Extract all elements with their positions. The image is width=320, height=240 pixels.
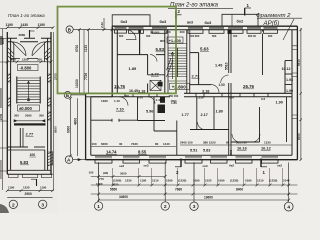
bottom window sill 7 bbox=[262, 160, 279, 163]
texts lower-right top row bbox=[196, 96, 266, 102]
top window sill 1 bbox=[115, 30, 127, 33]
room label 1.89 bbox=[129, 66, 138, 71]
detail entry wall lower bbox=[7, 41, 51, 43]
dim line lower-right band bbox=[180, 144, 292, 146]
paper shading left strip bbox=[0, 0, 58, 213]
underline 14.74 bbox=[106, 153, 117, 155]
door jambs lower-left gap bbox=[112, 119, 119, 122]
detail bottom dim texts bbox=[8, 186, 47, 190]
elevation box +2.800 bbox=[170, 83, 190, 89]
room label 3.18 right bbox=[202, 90, 209, 94]
svg-text:26.76: 26.76 bbox=[243, 84, 255, 89]
detail hatch pocket right lower bbox=[48, 98, 51, 106]
section marker 1 bottom bbox=[261, 159, 267, 176]
partition vert lower mid bbox=[176, 121, 178, 156]
svg-text:1090: 1090 bbox=[245, 179, 252, 183]
svg-text:1133: 1133 bbox=[84, 45, 88, 52]
bath partition horiz 3 bbox=[285, 84, 292, 86]
svg-text:14.74: 14.74 bbox=[106, 150, 117, 155]
top window sill 8 bbox=[264, 30, 278, 34]
svg-text:30: 30 bbox=[119, 142, 123, 146]
detail right outer wall bbox=[44, 32, 51, 174]
room label 2.17 bbox=[201, 113, 208, 117]
label 5.51 lower bbox=[190, 149, 197, 153]
svg-text:1.49: 1.49 bbox=[215, 64, 222, 68]
partition vert left apt inner bbox=[147, 55, 149, 75]
svg-text:100: 100 bbox=[30, 153, 36, 157]
top window sill 3 bbox=[152, 30, 167, 34]
detail left margin dim line bbox=[2, 29, 4, 191]
bottom window sill 1 bbox=[95, 160, 112, 163]
left vert dim line lower b bbox=[77, 98, 79, 156]
stair treads bbox=[168, 48, 187, 77]
svg-text:800: 800 bbox=[212, 34, 217, 38]
vent shaft block C bbox=[160, 97, 165, 103]
svg-text:80: 80 bbox=[226, 141, 230, 145]
dim text row 1 bbox=[99, 177, 290, 183]
extra dim line left bay bbox=[91, 175, 167, 178]
detail left margin ticks bbox=[0, 29, 7, 172]
svg-text:4.46: 4.46 bbox=[156, 98, 162, 102]
rotated dim right 5510 bbox=[297, 59, 301, 66]
svg-text:3025 80: 3025 80 bbox=[236, 141, 247, 145]
top window sill 7 bbox=[247, 30, 261, 34]
label 14.74 bbox=[106, 150, 117, 155]
detail section mark top bbox=[30, 30, 35, 38]
G-MAIN: main plan group bbox=[64, 3, 302, 212]
svg-text:300 800: 300 800 bbox=[190, 34, 200, 38]
svg-text:1330: 1330 bbox=[264, 141, 271, 145]
room label 1.49 bbox=[215, 64, 222, 68]
rotated dim detail right a bbox=[54, 73, 58, 80]
detail vestibule wall bbox=[11, 58, 48, 60]
room label 2.77 left bbox=[151, 72, 160, 77]
svg-text:400: 400 bbox=[166, 30, 171, 34]
detail 2900 text bbox=[25, 192, 33, 196]
door arc lower-right b bbox=[232, 134, 240, 142]
room label 1.90a bbox=[286, 89, 293, 93]
svg-text:2460 100: 2460 100 bbox=[180, 141, 193, 145]
dim text row 1 extras bbox=[96, 182, 119, 187]
svg-text:бк2: бк2 bbox=[229, 164, 234, 168]
svg-text:-0.800: -0.800 bbox=[20, 66, 33, 71]
svg-text:8.55: 8.55 bbox=[138, 150, 147, 155]
vent shaft solid small bbox=[158, 82, 163, 87]
label 5.96 bbox=[146, 110, 153, 114]
underline 8.55 bbox=[138, 153, 147, 155]
axis line 3 vertical bbox=[193, 163, 195, 202]
section marker 2 bottom bbox=[175, 159, 181, 176]
detail hatch pocket right upper bbox=[48, 74, 51, 82]
svg-text:15.76: 15.76 bbox=[114, 84, 126, 89]
dim ticks line 3 bbox=[97, 199, 290, 202]
door arc lower-right bbox=[198, 122, 206, 130]
left upper outer wall bbox=[112, 26, 117, 97]
svg-text:1190: 1190 bbox=[8, 186, 15, 190]
rotated dim right 6000 bbox=[297, 133, 301, 140]
svg-text:ок3: ок3 bbox=[119, 164, 124, 168]
partition vert lower-left b bbox=[153, 97, 155, 131]
door arc bearing wall bbox=[221, 75, 229, 83]
detail mid dim texts bbox=[11, 58, 42, 62]
underline 7.10 bbox=[116, 110, 125, 112]
detail wall vert b bbox=[44, 150, 46, 170]
svg-text:2.32: 2.32 bbox=[100, 22, 104, 28]
fragment code AR(b) bbox=[263, 20, 280, 27]
stair landing line upper bbox=[168, 43, 187, 45]
svg-text:(1230): (1230) bbox=[178, 179, 186, 183]
rotated dim detail left low bbox=[0, 113, 3, 120]
extension lines below bottom wall bbox=[99, 162, 289, 185]
bottom window glazing lines bbox=[95, 156, 278, 158]
corridor wall north bbox=[117, 92, 292, 94]
underline 5.83 bbox=[156, 51, 165, 53]
detail bottom sill 1 bbox=[9, 174, 19, 177]
axis leader line B bbox=[71, 94, 86, 96]
door arc right apt bbox=[211, 85, 219, 93]
partition vert lower-right a bbox=[196, 97, 198, 130]
svg-text:2: 2 bbox=[164, 204, 167, 210]
svg-text:300: 300 bbox=[39, 114, 44, 118]
bath partition horiz 2 bbox=[285, 73, 292, 75]
bottom window sill 2 bbox=[123, 160, 140, 163]
svg-text:300: 300 bbox=[14, 114, 19, 118]
svg-text:ок3: ок3 bbox=[144, 164, 149, 168]
section marker 1 top bbox=[245, 3, 252, 16]
svg-text:1.03: 1.03 bbox=[219, 83, 225, 87]
svg-text:6700: 6700 bbox=[75, 45, 79, 52]
room label 15.76 bbox=[114, 84, 126, 89]
detail bottom dim line bbox=[7, 190, 52, 192]
rotated dim 7726 bbox=[84, 73, 88, 80]
svg-text:(1230): (1230) bbox=[269, 179, 277, 183]
svg-text:1200: 1200 bbox=[22, 58, 29, 62]
window tick right wall 3 bbox=[292, 115, 297, 119]
right outer wall bbox=[292, 26, 297, 160]
dim line 1 bottom bbox=[91, 184, 298, 186]
underline 5.83 detail bbox=[20, 164, 29, 166]
svg-text:6000: 6000 bbox=[297, 133, 301, 140]
svg-text:1190: 1190 bbox=[40, 186, 47, 190]
partition horiz right apt low bbox=[190, 84, 211, 86]
svg-text:7680: 7680 bbox=[175, 188, 182, 192]
axis circle 3 bbox=[190, 202, 198, 210]
svg-text:7726: 7726 bbox=[84, 73, 88, 80]
detail bottom sill 3 bbox=[42, 174, 52, 177]
section marker 2 top bbox=[176, 9, 182, 19]
svg-text:300: 300 bbox=[37, 58, 42, 62]
rotated dim 11000 bbox=[75, 79, 79, 88]
svg-text:100: 100 bbox=[124, 94, 129, 98]
detail wall vert a bbox=[20, 128, 23, 147]
svg-text:1190: 1190 bbox=[140, 179, 147, 183]
svg-text:5.51: 5.51 bbox=[190, 149, 197, 153]
detail door gap wall horiz bbox=[7, 147, 45, 150]
detail 2880 text bbox=[19, 33, 26, 37]
svg-text:1190: 1190 bbox=[6, 23, 13, 27]
elevation box 0.000 bbox=[18, 105, 40, 111]
svg-text:80: 80 bbox=[155, 142, 159, 146]
rotated dim 1133 bbox=[84, 45, 88, 52]
detail arrows dim line bbox=[14, 120, 45, 122]
svg-text:2.77: 2.77 bbox=[26, 132, 35, 137]
axis leader line A with arrow bbox=[73, 159, 86, 161]
svg-text:(1230): (1230) bbox=[230, 179, 238, 183]
room label 2.77 right bbox=[192, 74, 201, 79]
balcony top-mid-right bbox=[222, 14, 258, 26]
window tick right wall 2 bbox=[292, 73, 297, 77]
svg-text:1.90: 1.90 bbox=[286, 89, 293, 93]
bath partition vert right bbox=[284, 61, 286, 94]
top window sill 6 bbox=[228, 30, 243, 34]
room label 5.83 upper-left bbox=[156, 47, 165, 52]
svg-text:±0.000: ±0.000 bbox=[19, 106, 32, 111]
bottom window sill 3 bbox=[149, 160, 166, 163]
extra small texts left bay bbox=[89, 171, 127, 176]
svg-text:7330: 7330 bbox=[131, 142, 138, 146]
detail axis circle 3 bbox=[39, 200, 47, 208]
svg-text:бк3: бк3 bbox=[160, 19, 167, 24]
svg-text:5510: 5510 bbox=[224, 62, 228, 70]
svg-text:3020: 3020 bbox=[112, 183, 119, 187]
underline 2.77 left bbox=[151, 75, 159, 77]
partition horiz left apt bbox=[117, 54, 165, 56]
svg-text:1090: 1090 bbox=[166, 179, 173, 183]
axis leader line V bbox=[73, 29, 112, 31]
svg-text:3.18: 3.18 bbox=[202, 90, 209, 94]
axis circle 1 bbox=[94, 202, 102, 210]
door arc vent room bbox=[148, 97, 155, 104]
svg-text:16.16: 16.16 bbox=[237, 146, 248, 151]
bottom window sill 4 bbox=[185, 160, 202, 163]
axis line 4 vertical bbox=[288, 163, 290, 202]
fragment label text bbox=[256, 13, 291, 19]
label 16.16 lower bbox=[237, 146, 248, 151]
partition vert left apt bbox=[139, 30, 141, 55]
partition horiz right apt top bbox=[190, 52, 199, 54]
door arc left apt room bbox=[150, 55, 157, 62]
balcony label mid bbox=[160, 19, 167, 24]
detail bottom wall bbox=[7, 170, 52, 174]
partition horiz lower-right small rooms bbox=[190, 129, 229, 131]
rotated dim detail right b bbox=[54, 126, 58, 133]
svg-text:300: 300 bbox=[146, 34, 151, 38]
dim ticks line 2 bbox=[97, 193, 290, 196]
detail lower dim line 2 bbox=[7, 196, 52, 198]
rotated dim 5510 bbox=[224, 62, 228, 70]
svg-text:1090: 1090 bbox=[193, 179, 200, 183]
svg-text:1.10: 1.10 bbox=[114, 99, 120, 103]
axis line 2 vertical bbox=[164, 163, 166, 201]
svg-text:100: 100 bbox=[229, 96, 234, 100]
underline 16.16 bbox=[237, 149, 247, 151]
svg-text:1230: 1230 bbox=[125, 179, 132, 183]
rotated dim 6000 bbox=[67, 126, 71, 133]
label 1.03 bbox=[219, 83, 225, 87]
left vert dim line b bbox=[87, 30, 89, 94]
svg-text:2700: 2700 bbox=[0, 113, 3, 120]
svg-text:+2.800: +2.800 bbox=[172, 84, 187, 89]
underline 16.12 bbox=[261, 149, 271, 151]
axis circle B mid-left bbox=[64, 92, 71, 99]
stair left wall bbox=[165, 30, 168, 94]
svg-text:2.77: 2.77 bbox=[151, 72, 160, 77]
underline 2.77 detail bbox=[26, 135, 34, 137]
door arc lower-left bbox=[119, 97, 128, 106]
rotated dim 4800 bbox=[73, 118, 77, 125]
edge smudge left top bbox=[0, 36, 3, 45]
partition horiz lower-right big rooms bbox=[231, 141, 260, 143]
underline 2.77 right bbox=[192, 77, 200, 79]
svg-text:19600: 19600 bbox=[204, 196, 213, 200]
svg-text:800 30: 800 30 bbox=[248, 34, 256, 38]
rotated dim 6700 bbox=[75, 45, 79, 52]
bottom window sill 5 bbox=[211, 160, 228, 163]
window tick right wall 1 bbox=[292, 46, 297, 50]
svg-text:5.63: 5.63 bbox=[200, 47, 209, 52]
detail hatch block right mid bbox=[48, 112, 51, 120]
corridor door jambs bbox=[125, 93, 268, 97]
right edge dim ticks bbox=[300, 28, 303, 161]
svg-text:8400: 8400 bbox=[236, 188, 243, 192]
partition vert lower-right d bbox=[286, 97, 288, 142]
title underline bbox=[168, 7, 233, 9]
svg-text:3: 3 bbox=[193, 204, 196, 210]
svg-text:800: 800 bbox=[119, 34, 124, 38]
svg-text:16.12: 16.12 bbox=[261, 146, 272, 151]
detail top dim ticks bbox=[6, 26, 55, 29]
partition vert apt2 bbox=[262, 34, 264, 76]
paper shading bottom band bbox=[0, 160, 302, 213]
detail entry wall upper bbox=[7, 37, 51, 39]
svg-text:5.83: 5.83 bbox=[20, 160, 29, 165]
svg-text:План 2-го этажа: План 2-го этажа bbox=[170, 3, 219, 9]
detail stair flight treads bbox=[17, 78, 40, 102]
svg-text:(90): (90) bbox=[103, 171, 108, 175]
svg-text:34600: 34600 bbox=[119, 195, 128, 199]
underline 26.76 bbox=[243, 88, 254, 90]
detail bottom sill 2 bbox=[23, 174, 38, 177]
top window sill 2 bbox=[129, 30, 144, 34]
svg-text:800: 800 bbox=[160, 39, 165, 43]
detail stair arrow bbox=[27, 81, 30, 101]
dim ticks lower-left bbox=[69, 97, 72, 157]
axis line 1 vertical bbox=[98, 163, 100, 201]
svg-text:5.83: 5.83 bbox=[203, 149, 210, 153]
stair lobby corridor opening whiteout bbox=[170, 92, 184, 98]
axis circle V top-left bbox=[66, 26, 73, 33]
detail door arc left bbox=[12, 42, 26, 56]
edge smudge left low bbox=[0, 160, 2, 179]
detail platform bar bbox=[14, 123, 46, 125]
svg-text:6000: 6000 bbox=[67, 126, 71, 133]
detail hatch pocket left upper bbox=[7, 74, 10, 82]
vent shaft block B bbox=[158, 105, 166, 114]
texts lower-left row bbox=[101, 94, 177, 105]
detail mid dim ticks bbox=[6, 60, 52, 63]
label 100 detail bbox=[30, 153, 36, 157]
svg-text:0.6: 0.6 bbox=[261, 97, 266, 101]
partition horiz lower-left west bbox=[91, 119, 138, 121]
partition vert lower-right b bbox=[213, 97, 215, 130]
corridor wall south bbox=[91, 96, 292, 98]
label 2.77 detail bbox=[26, 132, 35, 137]
room label 1.77 bbox=[182, 113, 189, 117]
stair mid stringer bbox=[177, 48, 179, 77]
detail hatch pocket left lower bbox=[7, 98, 10, 106]
svg-text:400: 400 bbox=[180, 30, 185, 34]
svg-text:4800: 4800 bbox=[73, 118, 77, 125]
room label 3.18 left bbox=[138, 90, 145, 94]
svg-text:5.83: 5.83 bbox=[156, 47, 165, 52]
balcony divider tick bbox=[231, 14, 233, 26]
top window glazing lines bbox=[115, 27, 278, 28]
svg-text:1230: 1230 bbox=[23, 186, 30, 190]
title plan 1 floor bbox=[8, 13, 45, 18]
elevation box -0.800 bbox=[18, 65, 39, 71]
stair right wall bbox=[187, 30, 190, 94]
green fragment box bbox=[58, 7, 177, 94]
detail bottom dim ticks bbox=[6, 189, 54, 192]
svg-text:1.80: 1.80 bbox=[216, 110, 223, 114]
svg-text:1040: 1040 bbox=[283, 179, 290, 183]
svg-text:1.239: 1.239 bbox=[196, 96, 204, 100]
dim texts lower-right band bbox=[180, 141, 271, 145]
svg-text:7.10: 7.10 bbox=[116, 107, 125, 112]
svg-text:4: 4 bbox=[287, 205, 290, 211]
step wall upper-lower junction bbox=[86, 93, 118, 97]
underline 100 detail bbox=[30, 156, 37, 158]
small dim 800 left apt bbox=[150, 31, 165, 44]
partition vert wc left bbox=[147, 84, 149, 94]
corner blob bottom-left bbox=[0, 204, 9, 213]
detail top dim line bbox=[7, 27, 53, 29]
door arc lower-right c bbox=[252, 134, 260, 142]
rotated dim detail left margin bbox=[1, 37, 5, 44]
dim text row 2 bbox=[110, 188, 243, 192]
label 5.83 lower bbox=[203, 149, 210, 153]
stair lobby texts bbox=[169, 94, 179, 103]
svg-text:1.93: 1.93 bbox=[286, 78, 293, 82]
svg-text:1210: 1210 bbox=[152, 179, 159, 183]
left vert dim line c bbox=[83, 30, 85, 94]
svg-text:2080: 2080 bbox=[25, 114, 32, 118]
svg-text:вк3: вк3 bbox=[187, 21, 193, 25]
room label 1.80 bbox=[216, 110, 223, 114]
svg-text:1.90: 1.90 bbox=[276, 101, 283, 105]
stair up arrow line bbox=[171, 52, 173, 79]
svg-text:11000: 11000 bbox=[75, 79, 79, 88]
svg-text:3000: 3000 bbox=[229, 149, 233, 156]
room label 1.93 bbox=[286, 78, 293, 82]
elevation box +1.400 bbox=[167, 37, 183, 43]
detail top dim texts bbox=[6, 23, 45, 27]
right edge dim line bbox=[300, 28, 302, 160]
dim text row 3 bbox=[119, 195, 213, 200]
top window sill 5 bbox=[209, 30, 224, 34]
svg-text:Фрагмент 2: Фрагмент 2 bbox=[256, 13, 291, 19]
balcony 2 label bbox=[237, 19, 244, 24]
pier left apt partition top bbox=[138, 30, 141, 33]
balcony label mid-right bbox=[187, 21, 193, 25]
svg-text:1090: 1090 bbox=[218, 179, 225, 183]
detail stair flight sides bbox=[17, 77, 40, 104]
partition vert lower-right c bbox=[259, 107, 261, 142]
svg-text:2900: 2900 bbox=[25, 192, 33, 196]
svg-text:бк3: бк3 bbox=[205, 20, 212, 25]
detail lower dim texts bbox=[14, 114, 44, 118]
bath partition horiz 1 bbox=[285, 60, 292, 62]
